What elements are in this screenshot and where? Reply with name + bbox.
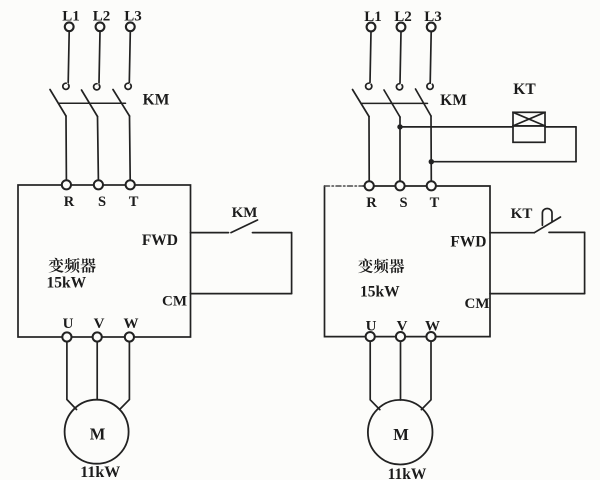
terminal L1 — [65, 22, 74, 31]
svg-text:11kW: 11kW — [388, 466, 427, 480]
svg-text:CM: CM — [465, 296, 490, 312]
contactor KM right linkage bar — [361, 102, 428, 104]
svg-text:T: T — [430, 195, 440, 211]
wire KM pole 2 to terminal S right — [399, 117, 401, 181]
terminal W — [125, 332, 134, 341]
contactor KM pole 1 blade — [50, 90, 66, 117]
svg-text:KT: KT — [513, 81, 536, 98]
wire back to T junction — [431, 161, 576, 163]
wire KT contact fixed side — [549, 231, 585, 233]
wire KM pole 3 to terminal T right — [430, 116, 432, 181]
contactor KM right pole 3 blade — [416, 89, 432, 116]
inverter U2 box (变频器 15kW) — [325, 186, 491, 337]
terminal T — [126, 180, 135, 189]
contactor KM right pole 2 fixed contact — [396, 84, 402, 90]
wire FWD to KT delay contact — [490, 232, 534, 234]
svg-text:M: M — [393, 425, 409, 444]
wire L3 to KM pole 3 — [129, 31, 130, 82]
terminal V right — [396, 332, 405, 341]
terminal R right — [365, 181, 374, 190]
inverter U2 box dashed top-left segment — [325, 185, 364, 187]
wire S junction to timer coil KT — [400, 126, 513, 128]
wire right side down — [291, 233, 293, 294]
svg-text:CM: CM — [162, 294, 187, 310]
wire KM pole 1 to terminal R right — [368, 117, 370, 182]
contactor KM pole 3 fixed contact — [125, 83, 131, 89]
wire KM pole 1 to terminal R — [65, 116, 67, 180]
svg-text:T: T — [129, 194, 139, 210]
inverter U1 box (变频器 15kW) — [18, 185, 191, 337]
wire right side down (right schematic) — [584, 232, 586, 293]
contactor KM pole 2 blade — [82, 90, 98, 117]
value label 变频器 — [49, 258, 96, 273]
svg-text:S: S — [399, 195, 407, 211]
contactor KM right pole 3 fixed contact — [427, 83, 433, 89]
svg-text:KM: KM — [143, 92, 170, 109]
svg-text:V: V — [94, 316, 105, 332]
wire L2 to KM pole 2 right — [400, 32, 401, 83]
contactor KM right pole 2 blade — [384, 90, 400, 117]
wire U to motor — [67, 342, 77, 410]
wire L1 to KM pole 1 — [68, 31, 69, 82]
junction on T phase — [429, 159, 434, 164]
svg-text:15kW: 15kW — [47, 275, 87, 292]
motor M2 circle — [368, 400, 433, 465]
wire U to motor right — [370, 341, 380, 409]
KT delay contact arc symbol — [542, 208, 552, 225]
svg-text:FWD: FWD — [450, 233, 486, 250]
junction on S phase — [397, 124, 402, 129]
terminal S right — [395, 181, 404, 190]
timer relay coil KT lower box — [513, 126, 545, 142]
svg-text:KM: KM — [232, 205, 258, 221]
terminal T right — [427, 181, 436, 190]
terminal L3 right — [427, 23, 436, 32]
svg-text:KM: KM — [440, 92, 467, 109]
svg-text:U: U — [63, 316, 74, 332]
terminal R — [62, 180, 71, 189]
wire KM pole 3 to terminal T — [129, 116, 132, 180]
wire V to motor — [96, 342, 98, 400]
terminal L3 — [126, 22, 135, 31]
wire FWD to KM auxiliary contact — [191, 232, 229, 234]
terminal S — [94, 180, 103, 189]
svg-text:11kW: 11kW — [80, 464, 120, 480]
wire L2 to KM pole 2 — [99, 31, 100, 83]
svg-text:M: M — [90, 425, 106, 444]
contactor KM right pole 1 blade — [353, 90, 370, 117]
terminal L1 right — [367, 23, 376, 32]
wire L3 to KM pole 3 right — [430, 32, 431, 83]
wire back to CM right — [490, 293, 585, 295]
KT delay contact blade — [534, 217, 560, 233]
motor M1 circle — [65, 400, 129, 464]
timer relay coil KT box — [513, 112, 545, 126]
svg-text:W: W — [124, 316, 139, 332]
terminal V — [93, 332, 102, 341]
wire W to motor — [120, 342, 130, 410]
wire KM auxiliary contact fixed side — [253, 232, 292, 234]
svg-text:S: S — [98, 194, 106, 210]
svg-text:R: R — [366, 195, 377, 211]
contactor KM pole 3 blade — [113, 90, 130, 117]
value label 变频器 right — [358, 258, 404, 273]
svg-text:KT: KT — [511, 206, 533, 222]
contactor KM linkage bar — [59, 102, 126, 104]
wire right bend down — [575, 127, 577, 162]
terminal L2 right — [397, 23, 406, 32]
wire back to CM — [191, 293, 292, 295]
timer relay coil KT cross — [513, 112, 545, 126]
terminal W right — [426, 332, 435, 341]
KM auxiliary contact blade — [231, 220, 258, 233]
contactor KM right pole 1 fixed contact — [366, 83, 372, 89]
contactor KM pole 2 fixed contact — [94, 84, 100, 90]
terminal U — [62, 332, 71, 341]
terminal L2 — [96, 22, 105, 31]
svg-text:15kW: 15kW — [360, 283, 400, 300]
wire coil KT to right bend — [545, 126, 576, 128]
svg-text:R: R — [64, 194, 75, 210]
wire V to motor right — [400, 341, 402, 400]
wire KM pole 2 to terminal S — [97, 117, 100, 181]
svg-text:FWD: FWD — [142, 232, 178, 249]
terminal U right — [366, 332, 375, 341]
wire L1 to KM pole 1 right — [370, 32, 371, 83]
wire W to motor right — [421, 341, 431, 409]
contactor KM pole 1 fixed contact — [63, 83, 69, 89]
